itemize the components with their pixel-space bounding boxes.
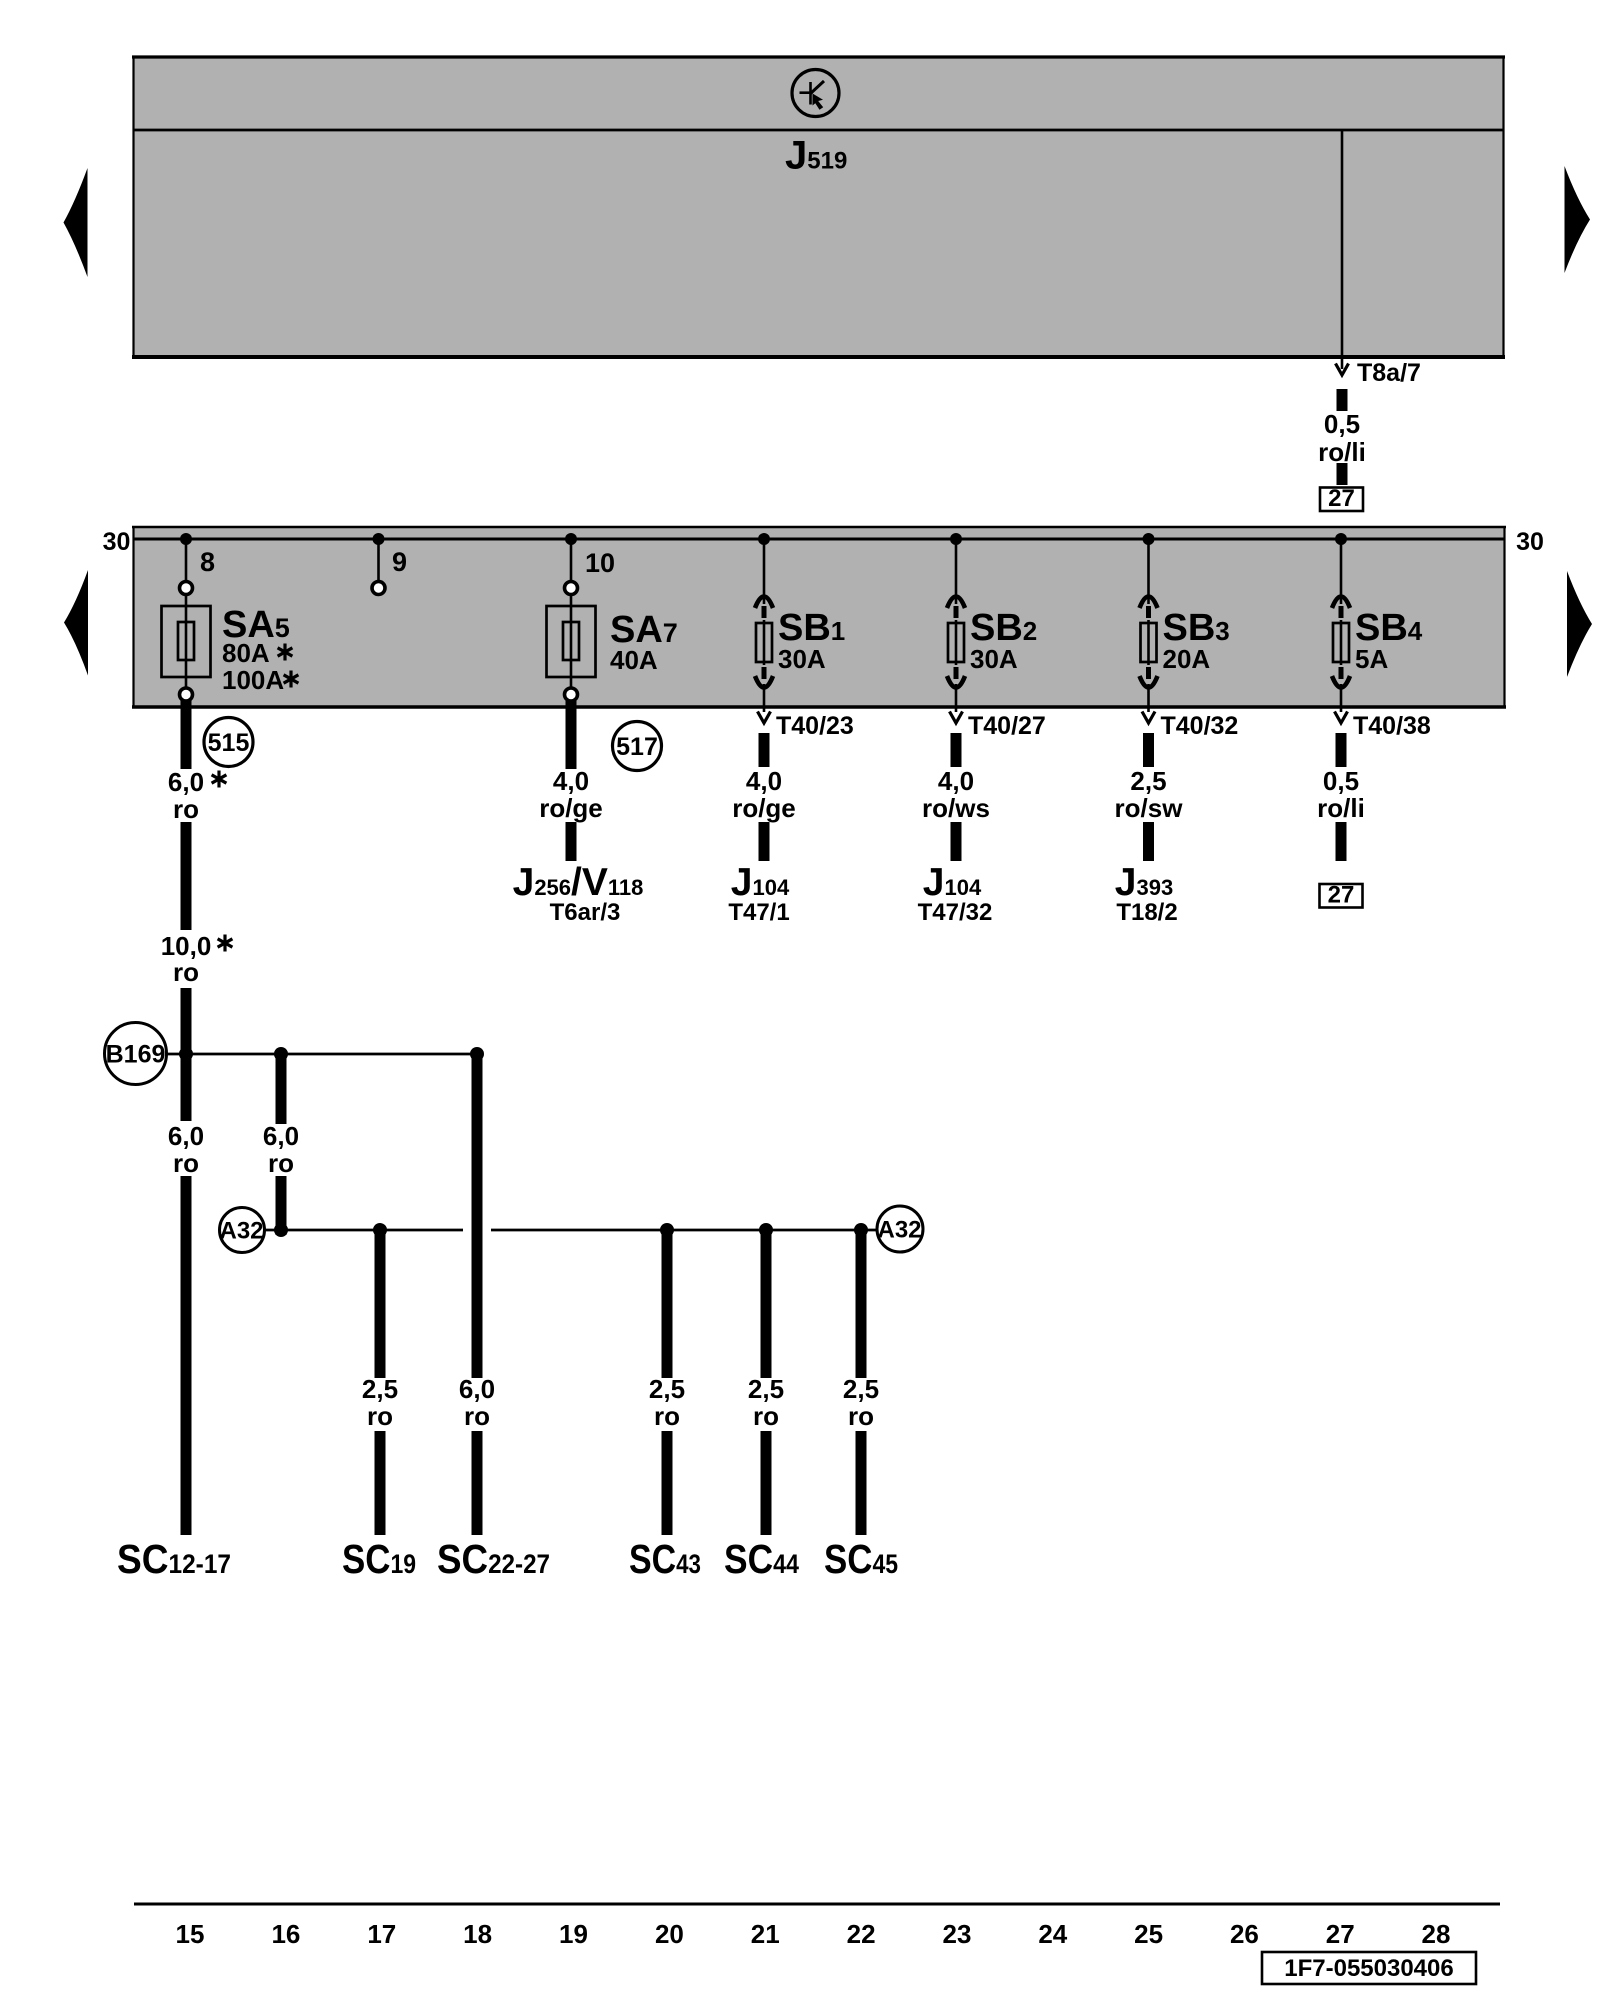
svg-text:21: 21 [751, 1919, 780, 1949]
svg-text:SC45: SC45 [824, 1536, 898, 1582]
wire 2,5 ro col-x861 [856, 1230, 867, 1378]
svg-text:T47/1: T47/1 [728, 899, 789, 926]
svg-text:T40/27: T40/27 [968, 712, 1046, 740]
svg-text:6,0: 6,0 [168, 1121, 204, 1151]
svg-text:ro/ge: ro/ge [539, 793, 603, 823]
svg-text:16: 16 [271, 1919, 300, 1949]
distribution wire A32 (left segment) [265, 1229, 464, 1232]
svg-text:ro: ro [268, 1148, 294, 1178]
wire 2,5 ro/sw below SB3 [1143, 733, 1154, 767]
wire 6,0 ro col16 [276, 1054, 287, 1124]
wire 0,5 ro/li below SB4 [1336, 733, 1347, 767]
fuse SB1 30A [755, 539, 854, 740]
junction dot col16 on A32 wire [274, 1223, 288, 1237]
svg-text:ro: ro [173, 794, 199, 824]
junction dot col15 [179, 1047, 193, 1061]
svg-text:ro: ro [173, 1148, 199, 1178]
svg-text:2,5: 2,5 [362, 1374, 398, 1404]
svg-text:ro/li: ro/li [1317, 793, 1365, 823]
wire 4,0 ro/ge below SB1 [759, 733, 770, 767]
onboard-network symbol in J519 [792, 70, 839, 117]
svg-text:8: 8 [200, 547, 215, 577]
svg-text:30: 30 [103, 528, 131, 556]
svg-text:28: 28 [1422, 1919, 1451, 1949]
distribution wire from B169 [167, 1053, 478, 1056]
svg-text:A32: A32 [877, 1217, 921, 1244]
svg-text:30: 30 [1516, 528, 1544, 556]
pin T8a/7 arrow + label [1341, 357, 1344, 369]
svg-text:J393: J393 [1115, 861, 1173, 904]
svg-text:17: 17 [367, 1919, 396, 1949]
svg-text:ro: ro [367, 1401, 393, 1431]
svg-text:26: 26 [1230, 1919, 1259, 1949]
wire 2,5 ro col-x667 [662, 1230, 673, 1378]
svg-text:T40/23: T40/23 [776, 712, 854, 740]
svg-text:ro: ro [654, 1401, 680, 1431]
svg-text:27: 27 [1328, 882, 1355, 909]
left continuation arrow (bus row) [64, 570, 88, 676]
fuse SB2 30A [947, 539, 1046, 740]
wire 2,5 ro col17 [375, 1230, 386, 1378]
svg-text:2,5: 2,5 [649, 1374, 685, 1404]
svg-text:6,0: 6,0 [459, 1374, 495, 1404]
svg-text:2,5: 2,5 [843, 1374, 879, 1404]
junction dot col16 [274, 1047, 288, 1061]
wire 0,5 ro/li from T8a/7 [1337, 389, 1348, 411]
junction dot col22 [854, 1223, 868, 1237]
junction A32 left [219, 1208, 264, 1253]
svg-text:6,0: 6,0 [168, 767, 204, 797]
svg-text:20A: 20A [1163, 644, 1211, 674]
svg-text:24: 24 [1038, 1919, 1067, 1949]
svg-text:40A: 40A [610, 645, 658, 675]
junction 9 on bus 30 [373, 533, 385, 545]
fuse SA5 [162, 539, 211, 701]
control module box J519 [132, 56, 1505, 358]
junction dot col20 [660, 1223, 674, 1237]
svg-text:ro/ge: ro/ge [732, 793, 796, 823]
svg-text:2,5: 2,5 [1130, 766, 1166, 796]
fuse SB4 5A [1332, 539, 1431, 740]
svg-text:SC19: SC19 [342, 1536, 416, 1582]
svg-text:ro/ws: ro/ws [922, 793, 990, 823]
svg-text:15: 15 [176, 1919, 205, 1949]
fuse SB3 20A [1140, 539, 1239, 740]
wire 6,0 ro below SA5 [181, 700, 192, 769]
svg-text:T40/38: T40/38 [1353, 712, 1431, 740]
junction 10 on bus 30 [565, 533, 577, 545]
svg-text:30A: 30A [778, 644, 826, 674]
svg-text:T47/32: T47/32 [918, 899, 993, 926]
bus wire 30 [134, 538, 1505, 541]
junction dot col18 [470, 1047, 484, 1061]
svg-text:ro: ro [173, 957, 199, 987]
wire 2,5 ro col-x766 [761, 1230, 772, 1378]
svg-text:100A: 100A [222, 665, 284, 695]
svg-text:ro/li: ro/li [1318, 437, 1366, 467]
junction SB3 on bus 30 [1143, 533, 1155, 545]
svg-text:0,5: 0,5 [1324, 409, 1360, 439]
bottom grid rule [134, 1903, 1500, 1906]
crossing point 517 [613, 722, 662, 771]
svg-text:T6ar/3: T6ar/3 [550, 899, 621, 926]
terminal 27 box (bottom) [1320, 884, 1363, 908]
junction A32 right [877, 1206, 923, 1252]
wire 4,0 ro/ws below SB2 [951, 733, 962, 767]
distribution wire A32 (right segment) [491, 1229, 877, 1232]
left continuation arrow (top) [64, 168, 88, 277]
svg-text:ro: ro [464, 1401, 490, 1431]
svg-text:23: 23 [943, 1919, 972, 1949]
fuse SA7 [547, 539, 596, 701]
svg-text:B169: B169 [106, 1041, 166, 1069]
junction SB1 on bus 30 [758, 533, 770, 545]
svg-text:6,0: 6,0 [263, 1121, 299, 1151]
wire 6,0 ro col18 [472, 1054, 483, 1378]
wire inside J519 to pin T8a/7 [1341, 130, 1344, 358]
terminal 27 box (top) [1320, 488, 1363, 512]
right continuation arrow (top) [1565, 166, 1591, 273]
svg-text:SC12-17: SC12-17 [117, 1536, 231, 1582]
svg-text:1F7-055030406: 1F7-055030406 [1284, 1955, 1453, 1982]
svg-text:J104: J104 [923, 861, 982, 904]
svg-text:J104: J104 [731, 861, 790, 904]
svg-text:27: 27 [1328, 485, 1355, 512]
svg-text:ro: ro [753, 1401, 779, 1431]
svg-text:4,0: 4,0 [938, 766, 974, 796]
svg-text:J256/V118: J256/V118 [513, 861, 644, 904]
svg-text:517: 517 [616, 733, 658, 761]
junction B169 [105, 1023, 167, 1085]
junction dot col17 [373, 1223, 387, 1237]
svg-text:4,0: 4,0 [746, 766, 782, 796]
svg-text:22: 22 [847, 1919, 876, 1949]
svg-text:SC43: SC43 [629, 1536, 701, 1582]
svg-text:30A: 30A [970, 644, 1018, 674]
right continuation arrow (bus row) [1567, 571, 1592, 677]
wire 10,0 ro [181, 822, 192, 930]
junction SB2 on bus 30 [950, 533, 962, 545]
svg-text:ro/sw: ro/sw [1115, 793, 1184, 823]
svg-text:4,0: 4,0 [553, 766, 589, 796]
crossing point 515 [204, 718, 253, 767]
svg-text:80A: 80A [222, 638, 270, 668]
spare terminal 9 stub [372, 539, 385, 595]
bus bar box terminal 30 [132, 526, 1506, 708]
svg-text:T18/2: T18/2 [1116, 899, 1177, 926]
svg-text:SC44: SC44 [724, 1536, 799, 1582]
svg-text:10: 10 [585, 548, 615, 578]
svg-text:515: 515 [208, 729, 250, 757]
svg-text:SC22-27: SC22-27 [437, 1536, 550, 1582]
svg-text:20: 20 [655, 1919, 684, 1949]
diagram number box [1262, 1952, 1476, 1984]
svg-text:T40/32: T40/32 [1161, 712, 1239, 740]
svg-text:5A: 5A [1355, 644, 1388, 674]
svg-text:27: 27 [1326, 1919, 1355, 1949]
svg-text:A32: A32 [219, 1218, 263, 1245]
svg-text:ro: ro [848, 1401, 874, 1431]
svg-text:0,5: 0,5 [1323, 766, 1359, 796]
svg-text:9: 9 [392, 547, 407, 577]
svg-text:19: 19 [559, 1919, 588, 1949]
svg-text:25: 25 [1134, 1919, 1163, 1949]
junction dot col21 [759, 1223, 773, 1237]
svg-text:18: 18 [463, 1919, 492, 1949]
wire 4,0 ro/ge below SA7 [566, 701, 577, 769]
junction 8 on bus 30 [180, 533, 192, 545]
svg-text:T8a/7: T8a/7 [1357, 359, 1421, 387]
svg-text:2,5: 2,5 [748, 1374, 784, 1404]
junction SB4 on bus 30 [1335, 533, 1347, 545]
